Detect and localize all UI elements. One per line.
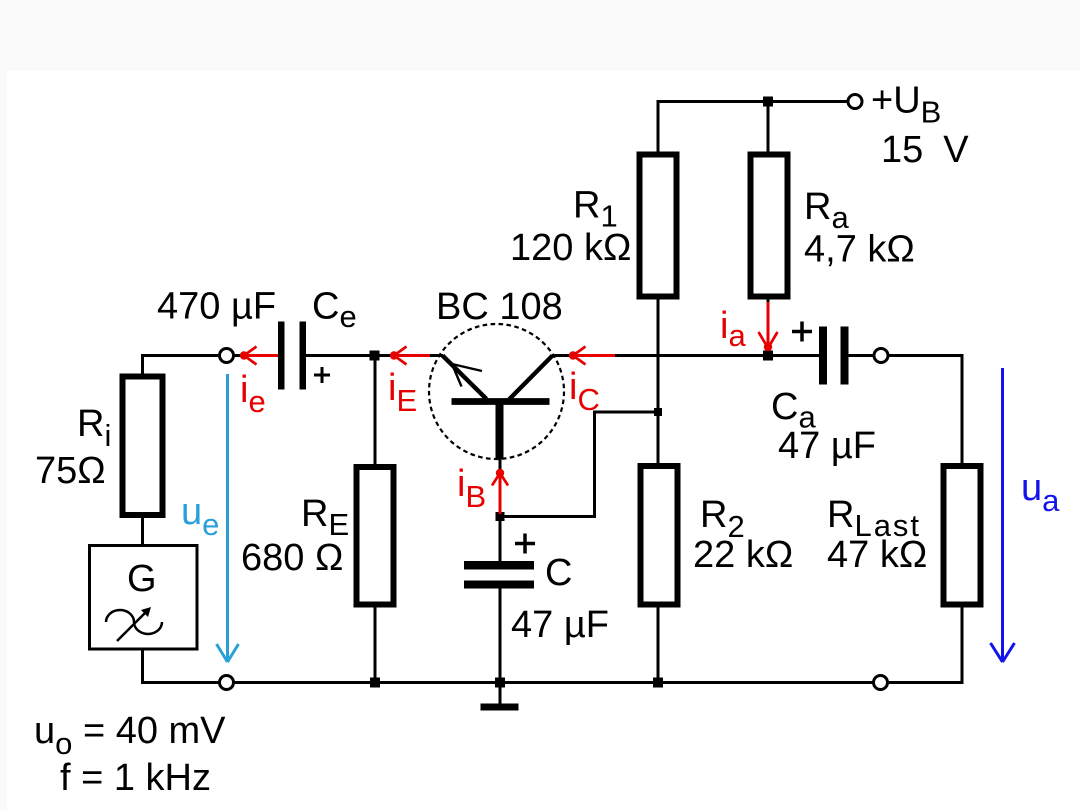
capacitor Ca plus — [792, 322, 812, 342]
wire input rail left of Ce — [234, 354, 280, 357]
wire top rail — [658, 100, 848, 103]
junction R2 bottom — [653, 678, 663, 688]
wire Ce to transistor emitter terminal — [306, 354, 443, 357]
capacitor C plates — [464, 561, 534, 570]
wire Ra bottom drop — [767, 299, 770, 356]
junction base cap node — [496, 512, 505, 521]
node input terminal top — [220, 349, 234, 363]
ground — [481, 704, 519, 711]
wire Ri bottom to G box — [141, 516, 144, 546]
node input terminal bottom — [220, 676, 234, 690]
wire R2 bottom drop — [657, 605, 660, 683]
transistor emitter lead — [443, 356, 487, 400]
transistor base bar — [452, 398, 550, 405]
svg-text:C: C — [545, 552, 572, 594]
svg-text:G: G — [127, 558, 157, 600]
wire base cap bottom to ground — [499, 588, 502, 704]
transistor base vertical lead — [496, 402, 504, 460]
wire input terminal to Ri corner — [143, 356, 220, 375]
arrow ua blue — [991, 368, 1015, 662]
generator G box — [90, 546, 198, 650]
junction top rail Ra — [763, 97, 773, 107]
svg-text:75Ω: 75Ω — [35, 450, 106, 492]
wire output terminal to RLast corner — [889, 356, 963, 467]
wire Ra top drop — [767, 100, 770, 152]
transistor collector lead — [509, 356, 553, 400]
capacitor C plus — [515, 534, 535, 554]
arrow tip dots red — [240, 351, 248, 359]
arrow iE — [394, 354, 430, 357]
wire bottom rail main — [234, 681, 874, 684]
node output terminal top — [874, 349, 888, 363]
resistor R2 — [641, 466, 678, 605]
svg-text:f = 1 kHz: f = 1 kHz — [60, 757, 211, 799]
generator adjust arrow — [117, 611, 147, 641]
capacitor Ce plus — [314, 367, 330, 383]
node output terminal bottom — [874, 676, 888, 690]
wire RLast bottom drop — [961, 605, 964, 683]
wire collector rail — [553, 354, 821, 357]
arrow iC — [573, 354, 615, 357]
resistor R1 — [640, 155, 677, 297]
svg-text:22 kΩ: 22 kΩ — [693, 534, 793, 576]
svg-text:470 µF: 470 µF — [157, 286, 276, 328]
wire Ca right to output terminal — [848, 354, 874, 357]
capacitor Ca plates — [819, 327, 827, 385]
svg-text:120 kΩ: 120 kΩ — [510, 227, 631, 269]
wire RE bottom drop — [374, 605, 377, 683]
junction ground — [495, 678, 505, 688]
capacitor Ce plates — [278, 322, 285, 390]
wire R1 bottom to R2 top vertical — [657, 299, 660, 466]
svg-text:47 kΩ: 47 kΩ — [827, 534, 927, 576]
svg-text:680 Ω: 680 Ω — [241, 537, 343, 579]
arrow ie — [244, 354, 278, 357]
wire bottom rail right of circle — [888, 681, 964, 684]
generator sine symbol — [106, 610, 162, 634]
transistor Q1 circle — [429, 324, 564, 459]
transistor emitter arrow — [452, 364, 482, 387]
arrow ia — [767, 302, 770, 348]
resistor Ra — [751, 155, 788, 297]
wire G box bottom to rail — [143, 649, 221, 683]
junction emitter node — [370, 351, 380, 361]
junction RE bottom — [370, 678, 380, 688]
svg-text:4,7 kΩ: 4,7 kΩ — [804, 229, 915, 271]
junction collector Ca node — [763, 351, 773, 361]
resistor RLast — [944, 466, 981, 605]
resistor Ri — [123, 377, 163, 516]
junction divider base node — [654, 408, 662, 416]
wire base link from divider node — [500, 412, 658, 517]
wire base cap top — [499, 457, 502, 562]
wire RE top drop — [374, 356, 377, 468]
arrow iB — [499, 473, 502, 514]
wire R1 top drop — [657, 100, 660, 152]
svg-text:BC 108: BC 108 — [436, 286, 563, 328]
resistor RE — [357, 467, 394, 605]
svg-text:47 µF: 47 µF — [778, 425, 876, 467]
arrow ue cyan — [217, 374, 239, 662]
svg-text:47 µF: 47 µF — [511, 604, 609, 646]
node UB terminal — [848, 95, 862, 109]
